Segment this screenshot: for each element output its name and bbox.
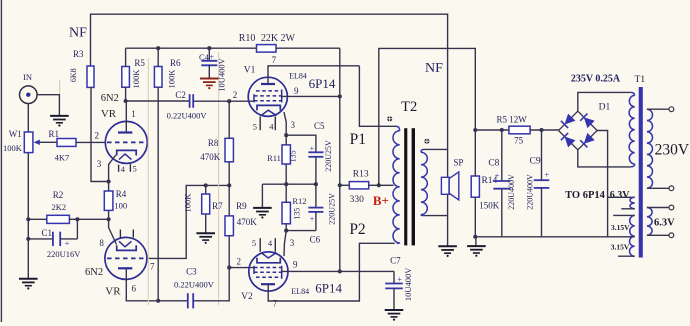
pentode V2 envelope [249,252,288,291]
svg-text:6N2: 6N2 [85,267,103,278]
capacitor C8 [493,180,510,182]
svg-text:+: + [310,143,315,153]
plate bar V2 [261,283,275,285]
cathode bar V2 [257,258,280,263]
svg-text:C5: C5 [314,121,325,131]
wire ground rail [475,236,626,238]
speaker SP [441,177,449,194]
wire C1 left [28,238,53,240]
wire secondary bottom [425,215,448,217]
node R7 tap [204,183,208,187]
T1 6.3V left winding [630,197,635,209]
wire 6.3V right bottom terminal [647,234,669,236]
wire speaker to ground [447,194,449,246]
wire C2 to V1 grid [193,100,254,102]
svg-text:135: 135 [292,208,301,220]
cathode lead V1 pin3 [284,112,286,135]
plate wire V2 pin7 to P2 [268,243,395,301]
heater VR-b [119,241,132,247]
svg-text:C2: C2 [175,90,186,100]
wire cathode gnd bus [262,183,316,185]
node C1 left junction [26,237,30,241]
wire to shared ground [261,184,263,207]
svg-text:75: 75 [514,136,524,146]
resistor R8 [225,138,233,162]
svg-text:3.15V: 3.15V [611,223,630,232]
svg-text:R12: R12 [292,196,306,206]
wire R6 bottom long [157,87,159,301]
svg-text:5: 5 [252,238,256,248]
wire R3 to cathode node [91,87,109,181]
grid row3 V1 [254,100,282,102]
svg-text:C8: C8 [488,159,499,169]
svg-text:5: 5 [253,121,257,131]
svg-text:W1: W1 [9,129,22,139]
wire 230V top terminal [647,108,669,110]
diode D1d (bottom-right) [584,133,595,144]
svg-text:C1: C1 [41,228,52,238]
wire C4 bottom lead [208,65,210,78]
node B+ [377,183,381,187]
plate lead pin6 [126,268,187,301]
grid row1 V1 [256,90,282,92]
svg-text:P1: P1 [350,131,366,148]
svg-text:C4: C4 [199,52,210,62]
capacitor C2 [189,94,191,108]
svg-text:R11: R11 [267,153,281,163]
node R6/C3 [156,299,160,303]
svg-text:1: 1 [131,109,136,119]
plate bar VR-b [118,267,132,269]
svg-text:TO 6P14: TO 6P14 [565,190,606,201]
node R4 bottom junction [107,217,111,221]
T1 3.15V winding 1 [630,215,635,236]
ground (V1/V2 cathode) [253,207,272,209]
ground (input jack) [50,115,69,117]
svg-text:T1: T1 [635,75,646,85]
svg-text:100K: 100K [167,69,177,89]
node ground rail [473,235,477,239]
grid left bar V2 [253,266,255,274]
wire R6 top [157,48,159,66]
left page edge line [0,0,2,322]
screen wire V2 pin9 [282,270,340,272]
heater stub VR-b right [132,230,134,238]
svg-text:8: 8 [99,238,104,248]
svg-text:9: 9 [294,86,299,96]
wire R7 bottom [205,214,207,233]
potentiometer W1 [24,132,33,153]
node V1 grid / R8 [227,99,231,103]
wire bridge AC bottom [578,150,631,167]
svg-text:470K: 470K [237,217,258,227]
ground (C4, red) [200,78,219,80]
wire 230V bottom terminal [647,187,669,189]
heater stub pin5 [129,164,131,172]
svg-text:3: 3 [291,120,296,130]
svg-text:IN: IN [23,72,32,82]
ground (W1/C1) [19,278,38,280]
input jack J1 [20,86,38,104]
wire filter rail right [530,129,559,131]
svg-text:NF: NF [425,61,443,76]
svg-text:V1: V1 [244,66,256,76]
grid row2 V2 [254,271,282,273]
svg-text:135: 135 [288,150,297,162]
svg-text:6: 6 [132,283,137,293]
cathode lead pin3 [109,155,116,182]
wire R4 top [108,182,110,192]
ground (R7) [196,232,215,234]
node W1/R2 junction [26,217,30,221]
wire P1 lead [359,66,395,127]
resistor R11 [282,145,290,164]
svg-text:6N2: 6N2 [101,93,119,104]
svg-text:235V 0.25A: 235V 0.25A [571,74,621,85]
cathode bar VR-a [117,150,137,155]
ground (C7) [385,309,404,311]
svg-text:150K: 150K [479,201,500,211]
svg-text:R8: R8 [208,138,219,148]
phase dot primary [387,116,392,121]
wire R14 bottom [474,197,476,237]
svg-text:T2: T2 [401,99,417,115]
svg-text:100K: 100K [183,193,193,213]
wire 3.15V bottom stub [618,255,635,257]
node VR-a plate [124,99,128,103]
svg-text:C6: C6 [310,235,321,245]
svg-text:6P14: 6P14 [315,281,342,296]
wire cathode rail [77,218,108,220]
node screen rail/V1 pin9 [338,94,342,98]
svg-text:+: + [495,170,500,180]
T1 6.3V right winding [647,208,652,236]
node screen rail/V2 pin9 [338,269,342,273]
screen wire V1 pin9 [282,95,340,97]
wire B+ to primary tap [379,184,394,186]
svg-text:2: 2 [236,256,241,266]
wire secondary top to NF node [425,148,448,150]
svg-text:0.22U400V: 0.22U400V [174,279,215,289]
svg-text:220U400V: 220U400V [525,174,534,210]
node screen rail/R13 [338,183,342,187]
wire R12 bottom [285,224,287,231]
heater stub V2 pin4 [274,238,276,252]
grid left bar V1 [253,94,255,102]
phase dot secondary [424,139,429,144]
wire R14 top [474,130,476,176]
svg-text:100K: 100K [131,69,141,89]
wire R5 bottom to plate node [125,87,127,101]
svg-text:3: 3 [290,238,295,248]
wiper arrow of W1 [39,141,58,143]
node R2/C1 right junction [75,217,79,221]
svg-text:2: 2 [233,90,238,100]
node V2 grid [227,266,231,270]
capacitor C6 [308,207,323,209]
svg-text:V2: V2 [241,292,253,302]
svg-text:2: 2 [94,131,99,141]
resistor R5 psu (12W) [509,126,530,134]
svg-text:4: 4 [121,164,126,174]
wire C6 top [315,184,317,207]
svg-text:R4: R4 [116,189,127,199]
resistor R12 [282,202,290,224]
grid dashes VR-a [107,141,144,143]
triode VR-a envelope [105,121,147,163]
T2 core bar 1 [404,128,407,245]
cathode lead V2 pin3 [284,231,286,256]
grid right bar V1 [281,90,283,103]
svg-text:EL84: EL84 [291,287,309,296]
wire R12 top [285,184,287,202]
wire cathode to C5 [286,135,316,152]
svg-text:6.3V: 6.3V [610,190,631,201]
svg-text:5: 5 [132,164,136,174]
T1 core [639,87,643,258]
node C8 [500,128,504,132]
wire plate node to C2 [126,100,189,102]
node cathode/R3/R4 [107,179,111,183]
wire C5 bottom [315,157,317,184]
wire R8 top [228,101,230,138]
wire C4 top lead [208,48,210,60]
node V1 cathode [284,133,288,137]
svg-text:+: + [310,214,315,224]
capacitor C5 [308,151,323,153]
svg-text:220U16V: 220U16V [47,249,81,259]
svg-text:R10: R10 [239,33,256,44]
wire W1 bottom to ground [27,153,29,279]
wire heater 6.3V top [608,196,635,198]
resistor R1 [57,139,76,147]
cathode bar VR-b [117,245,137,250]
resistor R5 [122,67,130,88]
grid dashes VR-b [107,257,144,259]
node C9 [539,128,543,132]
svg-text:9: 9 [293,259,298,269]
heater stub V1 pin5 [259,116,261,130]
svg-text:6.3V: 6.3V [654,217,675,228]
wire bridge AC top [578,92,631,111]
wire C3 to V2 grid [193,268,229,301]
heater V2 [261,253,277,258]
wire R11 top [285,135,287,145]
svg-text:C3: C3 [186,266,197,276]
svg-text:7: 7 [273,299,278,309]
node V2 cathode [284,229,288,233]
T1 3.15V winding 2 [629,236,634,256]
svg-text:R6: R6 [170,58,181,68]
svg-text:R7: R7 [212,201,223,211]
node B+ / R14 / filter [473,128,477,132]
wire R10 to screen rail [276,47,340,49]
heater V1 [261,110,277,115]
svg-text:0.22U400V: 0.22U400V [167,111,208,121]
wire R13 right [369,184,379,186]
svg-text:B+: B+ [373,193,389,208]
svg-text:6P14: 6P14 [309,76,336,91]
wire R2 right [69,218,77,220]
wire screen node to C7 [340,270,394,272]
svg-text:R5 12W: R5 12W [496,115,527,125]
wire R11 bottom [285,164,287,184]
T1 230V winding [647,109,653,188]
heater stub VR-b left [119,230,121,238]
capacitor C3 [187,293,189,308]
heater stub V2 pin5 [259,238,261,252]
svg-text:VR: VR [105,286,121,298]
svg-text:4K7: 4K7 [55,153,70,163]
wire jack to W1 [27,104,29,133]
T2 core bar 2 [412,128,415,245]
svg-text:470K: 470K [200,152,221,162]
wire to VR-b cathode pin8 [109,219,117,244]
T2 primary winding [396,126,400,130]
wire NF top line [91,14,448,149]
svg-text:220U25V: 220U25V [324,140,333,172]
wire screen rail vertical [339,48,341,271]
grid wire pin7 to inverter node [147,185,229,258]
wire C1 right [60,238,77,240]
resistor R6 [154,67,162,88]
node C4/R10 junction [207,46,211,50]
svg-text:330: 330 [350,195,365,205]
resistor R13 [349,182,368,189]
svg-text:2K2: 2K2 [51,202,66,212]
svg-text:22K 2W: 22K 2W [261,33,296,44]
node R11/R12 [284,182,288,186]
capacitor C4 [201,60,217,62]
wire 6.3V right top terminal [647,207,669,209]
capacitor C1 [52,232,54,246]
plate bar V1 [261,83,275,85]
resistor R3 [87,66,94,87]
node R6 top [156,46,160,50]
svg-text:10U400V: 10U400V [217,57,227,91]
capacitor C7 [385,283,403,285]
svg-text:230V: 230V [655,141,690,158]
svg-text:R13: R13 [353,170,369,180]
svg-text:R9: R9 [236,201,247,211]
svg-text:100: 100 [114,201,127,211]
wire R1 to VR grid pin2 [76,141,106,143]
ground (filter) [475,237,477,246]
wire B+ to PSU [379,48,476,185]
diode D1a (top-left) [565,114,576,125]
bridge outline [559,111,598,150]
cathode bar V1 [257,105,280,110]
svg-text:C7: C7 [390,255,401,265]
wire 3.15V center tap [627,236,635,238]
wire to R2 [28,218,47,220]
grid row1 V2 [254,267,282,269]
wire bridge DC minus [597,131,608,237]
svg-text:NF: NF [69,26,87,41]
svg-text:6K8: 6K8 [69,68,78,82]
diode D1b (bottom-left) [565,137,576,148]
resistor R4 [104,191,113,210]
svg-text:220U25V: 220U25V [327,193,336,225]
svg-text:220U400V: 220U400V [507,174,516,210]
svg-text:C9: C9 [530,157,541,167]
wire C7 bottom [393,288,395,309]
wire filter rail left [475,129,509,131]
wire cathode rail V2 [286,230,316,232]
svg-text:R5: R5 [134,58,145,68]
svg-text:+: + [209,51,214,61]
svg-text:10U400V: 10U400V [403,267,413,301]
plate lead pin1 [125,101,127,133]
heater VR-a [119,154,132,160]
svg-text:SP: SP [453,157,463,167]
resistor R7 [202,194,210,214]
capacitor C9 [534,179,550,181]
wire C6 bottom [315,212,317,231]
wire R13 left [340,184,350,186]
wire NF node to speaker [447,149,449,177]
wire jack shell to ground [37,95,59,116]
svg-text:4: 4 [269,122,274,132]
svg-text:P2: P2 [349,221,365,238]
svg-text:100K: 100K [3,143,23,153]
plate bar VR-a [118,131,132,133]
wire heater 6.3V bottom stub [621,208,634,210]
diode D1c (top-right) [584,117,595,128]
wire R9 bottom [228,236,230,268]
grid row3 V2 [256,276,282,278]
svg-text:R1: R1 [49,129,60,139]
svg-text:3: 3 [97,159,102,169]
svg-text:+: + [544,170,549,180]
node C5/C6 [314,182,318,186]
wire R8 to R9 [228,162,230,216]
wire R4 bottom [108,210,110,219]
resistor R14 [471,176,479,197]
svg-text:D1: D1 [599,102,611,112]
grid row2 V1 [254,95,282,97]
grid right bar V2 [281,266,283,279]
svg-text:EL84: EL84 [289,71,307,80]
ground (speaker) [438,245,457,247]
svg-text:7: 7 [272,55,277,65]
svg-text:7: 7 [150,262,155,272]
plate wire pin7 to P1 [268,66,359,84]
faint fold artifact line 2 [218,52,220,305]
svg-text:VR: VR [101,108,117,120]
heater stub pin4 [118,165,120,172]
svg-text:R2: R2 [53,190,64,200]
wire V2 grid [229,267,254,269]
faint artifact line above jack ground [59,80,61,94]
svg-text:R3: R3 [73,49,84,59]
faint fold artifact line 1 [147,58,149,305]
T1 235V winding [630,92,634,95]
resistor R10 [257,45,277,53]
wire R7 top [205,185,207,194]
wire R5 top [125,48,127,66]
pentode V1 envelope [248,77,287,116]
heater stub V1 pin4 [274,116,276,130]
resistor R9 [225,216,233,236]
triode VR-b envelope [105,237,147,279]
svg-text:+: + [397,274,402,284]
resistor R2 [47,215,70,223]
wire preamp B+ rail [126,47,257,49]
svg-text:3.15V: 3.15V [611,242,630,251]
T2 secondary winding [421,149,425,152]
wire 3.15V top stub [613,214,635,216]
